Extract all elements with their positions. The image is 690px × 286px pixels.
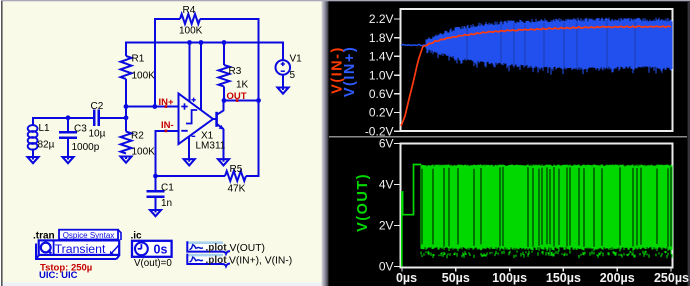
wire L1 stubs: [32, 117, 34, 157]
svg-text:C3: C3: [74, 124, 87, 135]
svg-text:R3: R3: [229, 66, 242, 77]
svg-text:1000p: 1000p: [72, 142, 100, 153]
svg-text:R5: R5: [230, 164, 243, 175]
resistor R1: [121, 56, 132, 79]
svg-text:V1: V1: [290, 54, 303, 65]
svg-text:250µs: 250µs: [654, 271, 689, 285]
svg-text:1K: 1K: [236, 80, 249, 91]
axis label V(OUT): [355, 173, 371, 232]
svg-text:0µs: 0µs: [396, 271, 417, 285]
capacitor C2: [94, 110, 98, 127]
Qspice Syntax tab: [59, 230, 121, 240]
bottom plot y labels: [379, 137, 394, 274]
svg-text:10µ: 10µ: [89, 129, 106, 140]
svg-text:LM311: LM311: [196, 141, 226, 152]
resistor R4: [180, 14, 200, 24]
svg-text:R2: R2: [131, 131, 144, 142]
capacitor C3: [59, 132, 77, 137]
top plot y-axis ticks: [394, 19, 401, 131]
svg-text:1.0V: 1.0V: [369, 68, 394, 82]
wire U1 second top pin: [200, 42, 202, 111]
window left edge: [0, 0, 1, 286]
node OUT junctions: [222, 98, 261, 103]
bottom plot y ticks: [394, 144, 401, 267]
bottom plot frame: [401, 144, 673, 268]
svg-text:2.2V: 2.2V: [369, 12, 394, 26]
svg-text:82µ: 82µ: [38, 140, 55, 151]
wire OUT right vertical (R4/R5 feedback to OUT): [258, 18, 260, 176]
inductor L1: [28, 125, 38, 150]
node junctions on supply rail: [187, 40, 226, 45]
svg-text:5: 5: [290, 70, 296, 81]
svg-text:0.2V: 0.2V: [369, 106, 394, 120]
window right edge: [688, 1, 690, 286]
svg-text:100µs: 100µs: [492, 271, 527, 285]
Transient button (.tran): [36, 240, 120, 259]
wire tank row L1/C3 to C2: [33, 117, 94, 119]
axis label V(IN+): [342, 46, 358, 97]
svg-text:V(IN+), V(IN-): V(IN+), V(IN-): [229, 256, 292, 267]
svg-text:1.8V: 1.8V: [369, 31, 394, 45]
svg-text:100K: 100K: [179, 26, 203, 37]
wire U1 V+ supply pin: [189, 42, 191, 102]
trace V(IN+) blue oscillation band: [401, 18, 672, 75]
svg-text:R4: R4: [183, 5, 196, 16]
ground U1 V-: [184, 158, 195, 165]
svg-text:.plot: .plot: [206, 243, 228, 254]
svg-text:150µs: 150µs: [546, 271, 581, 285]
top plot y-axis labels: [365, 12, 394, 138]
svg-text:47K: 47K: [228, 184, 246, 195]
wire R4 top-left vertical from IN+ node up to R4: [154, 19, 180, 107]
wire OUT row: [224, 100, 259, 102]
wire C3 stubs: [67, 117, 69, 157]
svg-text:V(OUT): V(OUT): [230, 243, 265, 254]
ground below C3: [63, 156, 74, 163]
ground below V1: [278, 87, 289, 94]
svg-text:V(out)=0: V(out)=0: [134, 258, 172, 269]
svg-text:6V: 6V: [379, 137, 394, 151]
node IN+ junctions: [66, 104, 158, 120]
trace V(OUT) green startup: [402, 165, 421, 267]
svg-text:L1: L1: [39, 123, 51, 134]
svg-text:UIC: UIC: UIC: UIC: [39, 270, 78, 281]
svg-text:0s: 0s: [154, 243, 168, 257]
wire R1 branch vertical: [125, 42, 127, 132]
svg-text:Transient: Transient: [55, 242, 106, 256]
wire R3 branch: [223, 42, 225, 101]
top plot frame: [401, 9, 673, 131]
svg-text:V(OUT): V(OUT): [355, 173, 371, 232]
svg-text:100K: 100K: [132, 147, 156, 158]
svg-text:R1: R1: [132, 54, 145, 65]
.plot directive row 2: [187, 254, 230, 267]
wire +5V supply rail: [126, 42, 283, 44]
ground below R2: [121, 156, 132, 163]
svg-text:50µs: 50µs: [442, 271, 470, 285]
wire R5 row: [155, 175, 260, 177]
capacitor C1: [147, 191, 165, 196]
wire C2 right plate to IN+ node: [99, 117, 126, 119]
pane separator: [329, 136, 687, 138]
resistor R5: [225, 171, 246, 181]
wire IN- row to C1/R5 node: [156, 130, 179, 176]
svg-text:0V: 0V: [379, 260, 394, 274]
wire V1 stubs: [282, 42, 284, 88]
bottom plot x labels: [396, 271, 689, 285]
bottom plot x ticks: [402, 268, 671, 272]
op-amp U1 LM311 comparator triangle: [179, 94, 214, 145]
.ic clock box 0s: [132, 241, 172, 257]
svg-text:2V: 2V: [379, 219, 394, 233]
svg-text:C1: C1: [161, 183, 174, 194]
trace V(IN-) red: [401, 26, 671, 126]
wire Q emitter to ground: [223, 129, 225, 159]
svg-text:1n: 1n: [161, 198, 172, 209]
trace V(OUT) green oscillation: [421, 165, 672, 259]
ground Q emitter: [218, 158, 229, 165]
schematic panel background: [3, 1, 322, 283]
svg-text:Qspice Syntax: Qspice Syntax: [63, 231, 115, 240]
ground below C1: [150, 209, 161, 216]
voltage source V1: [276, 60, 291, 75]
svg-text:200µs: 200µs: [600, 271, 635, 285]
window top strip: [0, 0, 690, 1]
axis label V(IN-): [329, 46, 345, 94]
svg-text:IN-: IN-: [161, 120, 174, 131]
wire Q collector to OUT: [223, 100, 225, 111]
schematic bottom strip: [3, 283, 322, 286]
svg-text:.plot: .plot: [206, 255, 228, 266]
wire U1 V- pin to ground: [188, 136, 190, 159]
svg-text:1.4V: 1.4V: [369, 50, 394, 64]
svg-text:100K: 100K: [132, 71, 156, 82]
resistor R2: [121, 132, 132, 154]
transistor Q output stage of U1: [213, 110, 224, 129]
.plot directive row 1: [187, 241, 230, 254]
svg-text:0.6V: 0.6V: [369, 87, 394, 101]
node IN- junction at C1/R5: [153, 174, 158, 179]
svg-text:V(IN+): V(IN+): [342, 46, 358, 97]
wire IN+ row: [126, 106, 179, 108]
wire R4 top-right horizontal to OUT vertical: [200, 18, 259, 20]
svg-text:C2: C2: [91, 101, 104, 112]
wire C1 stubs: [155, 176, 157, 210]
svg-text:4V: 4V: [379, 178, 394, 192]
resistor R3: [219, 65, 230, 86]
ground below L1: [28, 156, 39, 163]
